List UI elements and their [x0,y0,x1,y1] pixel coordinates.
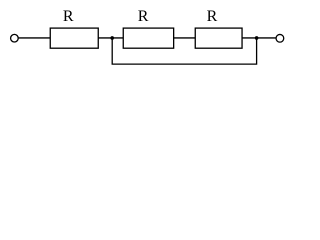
wire R3 to node B [242,37,276,39]
wire left terminal to R1 [18,37,50,39]
terminal left [11,34,19,42]
node B junction dot [255,36,259,40]
resistor R3 [195,28,242,48]
wire R1 to node A [98,37,123,39]
svg-text:R: R [138,8,149,25]
resistor R2 [123,28,173,48]
svg-text:R: R [207,8,218,25]
terminal right [276,34,284,42]
wire R2 to R3 [174,37,196,39]
svg-text:R: R [63,8,74,25]
resistor R1 [50,28,98,48]
wire shorting branch (node A down, across, up to node B) [112,38,256,64]
node A junction dot [110,36,114,40]
